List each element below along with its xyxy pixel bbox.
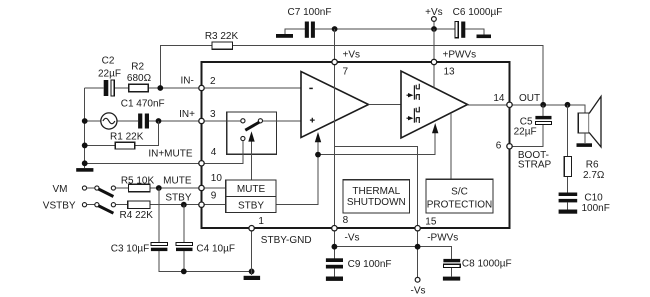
wire VSTBY to R4 (116, 204, 202, 206)
resistor R1 (115, 142, 134, 149)
pin 7 circle (332, 59, 337, 64)
node dot feedback/OUT (540, 102, 546, 108)
svg-text:7: 7 (343, 67, 349, 78)
s/c protection block (426, 179, 493, 213)
svg-text:R1 22K: R1 22K (110, 132, 144, 143)
wire pin7 to pin8 internal rail (334, 62, 336, 228)
wire A2 out to pin 14 (468, 104, 510, 106)
svg-text:+PWVs: +PWVs (443, 49, 477, 60)
capacitor C5 (512, 105, 543, 147)
switch box (mute switch) (227, 112, 277, 154)
capacitor C3 (151, 242, 168, 245)
wire R1 row (85, 121, 159, 145)
svg-text:100nF: 100nF (582, 203, 610, 214)
wire pin10 to mute block (204, 187, 226, 189)
svg-text:SHUTDOWN: SHUTDOWN (347, 197, 406, 208)
svg-text:-Vs: -Vs (345, 233, 360, 244)
node dot left/IN+MUTE (82, 160, 88, 166)
svg-text:C1 470nF: C1 470nF (121, 98, 165, 109)
wire left rail (84, 88, 86, 168)
svg-text:MUTE: MUTE (163, 175, 192, 186)
capacitor C2 (104, 80, 109, 96)
wire pin4 to switch (202, 141, 243, 164)
svg-text:3: 3 (210, 109, 216, 120)
node dot stby branch (315, 152, 321, 158)
pin 4 circle (199, 161, 204, 166)
ground (left rail) (76, 168, 93, 172)
node -Vs terminal circle (415, 277, 420, 282)
svg-text:680Ω: 680Ω (127, 73, 152, 84)
svg-text:15: 15 (425, 217, 437, 228)
svg-text:14: 14 (493, 93, 505, 104)
switch SW1 (VM) (82, 186, 86, 190)
node dot pin8/C9 (332, 244, 338, 250)
svg-text:VM: VM (53, 184, 68, 195)
svg-text:22µF: 22µF (98, 68, 121, 79)
node dot STBY-GND (249, 269, 255, 275)
capacitor C10 (559, 193, 578, 197)
ground (C9) (326, 277, 343, 281)
svg-text:R3 22K: R3 22K (205, 31, 239, 42)
pin 14 circle (507, 102, 512, 107)
svg-text:S/C: S/C (451, 187, 468, 198)
wire +Vs rail to pin 7 (334, 29, 336, 62)
svg-text:STBY: STBY (165, 192, 191, 203)
wire pin3 to switch box (204, 120, 227, 122)
svg-text:2: 2 (210, 76, 216, 87)
wire stby control net (277, 132, 436, 204)
node dot OUT/R6 (565, 102, 571, 108)
node dot C4/gnd rail (181, 269, 187, 275)
svg-text:STBY-GND: STBY-GND (261, 235, 312, 246)
wire A2 to S/C box (450, 113, 452, 179)
svg-text:C7 100nF: C7 100nF (288, 7, 332, 18)
svg-text:R2: R2 (131, 62, 144, 73)
svg-text:8: 8 (343, 215, 349, 226)
ground (C10) (559, 210, 578, 214)
svg-text:IN-: IN- (180, 76, 193, 87)
svg-text:C9 100nF: C9 100nF (348, 259, 392, 270)
wire IN+ row (85, 120, 202, 122)
op-amp A2 (power stage) (401, 71, 468, 138)
wire -Vs bottom rail (334, 228, 451, 277)
svg-text:STBY: STBY (238, 200, 264, 211)
svg-text:STRAP: STRAP (518, 160, 552, 171)
svg-text:C2: C2 (102, 56, 115, 67)
mute block (226, 180, 276, 197)
svg-text:C8 1000µF: C8 1000µF (462, 259, 512, 270)
speaker LS (578, 113, 589, 133)
pin 1 circle (249, 226, 254, 231)
pin 8 circle (332, 226, 337, 231)
svg-text:VSTBY: VSTBY (43, 201, 76, 212)
wire VM to R5 (116, 187, 202, 189)
pin 6 circle (507, 144, 512, 149)
ground (STBY-GND) (244, 276, 261, 280)
svg-text:MUTE: MUTE (237, 184, 266, 195)
wire pin3 to + input (227, 120, 301, 122)
transistor symbol lower (407, 107, 420, 123)
wire +Vs rail to pin 13 (433, 29, 435, 62)
node IN+ junction (156, 118, 162, 124)
junction dot +Vs/pin13 (431, 26, 437, 32)
resistor R4 (128, 201, 150, 209)
svg-text:THERMAL: THERMAL (352, 186, 400, 197)
wire A1 out to A2 in (369, 104, 402, 106)
resistor R2 (129, 84, 149, 91)
transistor symbol upper (407, 84, 420, 100)
svg-text:10: 10 (211, 173, 223, 184)
pin 9 circle (199, 202, 204, 207)
node IN- junction (157, 85, 163, 91)
ground (C8) (443, 277, 460, 281)
pin 10 circle (199, 185, 204, 190)
pin 2 circle (199, 85, 204, 90)
node +Vs terminal (433, 22, 435, 30)
wire C3 branch (159, 188, 252, 271)
junction dot C7/pin7 (332, 26, 338, 32)
svg-text:-Vs: -Vs (411, 285, 426, 296)
capacitor C9 (326, 258, 343, 262)
resistor R5 (129, 184, 151, 192)
node dot left/IN+ (82, 118, 88, 124)
svg-text:C6 1000µF: C6 1000µF (453, 7, 503, 18)
svg-text:OUT: OUT (519, 93, 540, 104)
wire top +Vs rail (285, 29, 484, 35)
capacitor C7 (305, 22, 309, 38)
switch SW2 (VSTBY) (82, 203, 86, 207)
arrow mute control (251, 141, 253, 180)
wire pin9 to stby block (204, 204, 226, 206)
capacitor C8 (443, 259, 460, 262)
capacitor C4 (176, 242, 193, 245)
svg-text:IN+: IN+ (179, 109, 195, 120)
svg-text:-PWVs: -PWVs (427, 233, 458, 244)
svg-text:IN+MUTE: IN+MUTE (148, 148, 193, 159)
ground (C7 left) (276, 34, 293, 38)
arrow stby into A2 (432, 123, 438, 133)
resistor R6 (567, 105, 569, 193)
wire IN- row (85, 87, 202, 89)
node dot pin15/-Vs (415, 244, 421, 250)
switch blade (245, 122, 259, 130)
wire feedback R3 row (160, 46, 543, 105)
wire OUT row (512, 105, 585, 113)
source VG (101, 113, 117, 129)
node dot left/R1 (82, 143, 88, 149)
arrow stby into A1 (315, 132, 321, 142)
svg-text:C3 10µF: C3 10µF (111, 243, 150, 254)
stby block (226, 196, 276, 212)
wire IN+MUTE row (85, 162, 202, 164)
svg-text:C4 10µF: C4 10µF (196, 243, 235, 254)
svg-text:+Vs: +Vs (343, 49, 361, 60)
thermal shutdown block (343, 180, 410, 213)
svg-text:22µF: 22µF (514, 127, 537, 138)
ground (speaker) (577, 143, 593, 147)
svg-text:9: 9 (211, 191, 217, 202)
svg-text:2.7Ω: 2.7Ω (583, 170, 605, 181)
node +Vs terminal circle (432, 17, 437, 22)
node dot R4/C4 (181, 202, 187, 208)
resistor R3 (212, 42, 233, 49)
svg-text:13: 13 (444, 67, 456, 78)
IC U1 outline (202, 62, 510, 228)
svg-text:R5 10K: R5 10K (121, 175, 155, 186)
wire C4 branch (183, 205, 185, 272)
wire internal rail to pin 15 (335, 147, 418, 229)
op-amp A1 (301, 72, 369, 138)
wire pin1 to gnd (251, 228, 253, 275)
svg-text:1: 1 (258, 216, 264, 227)
svg-text:PROTECTION: PROTECTION (427, 200, 493, 211)
pin 13 circle (431, 59, 436, 64)
ground (C6 right) (477, 35, 492, 39)
node dot R5/C3 (156, 185, 162, 191)
wire pin13 into A2 (433, 62, 435, 87)
svg-text:R4 22K: R4 22K (120, 210, 154, 221)
pin 3 circle (199, 118, 204, 123)
svg-text:6: 6 (496, 141, 502, 152)
svg-text:4: 4 (211, 147, 217, 158)
capacitor C1 (138, 114, 142, 129)
capacitor C6 (455, 22, 458, 38)
pin 15 circle (415, 226, 420, 231)
wire pin2 to A1 minus input (204, 87, 301, 89)
